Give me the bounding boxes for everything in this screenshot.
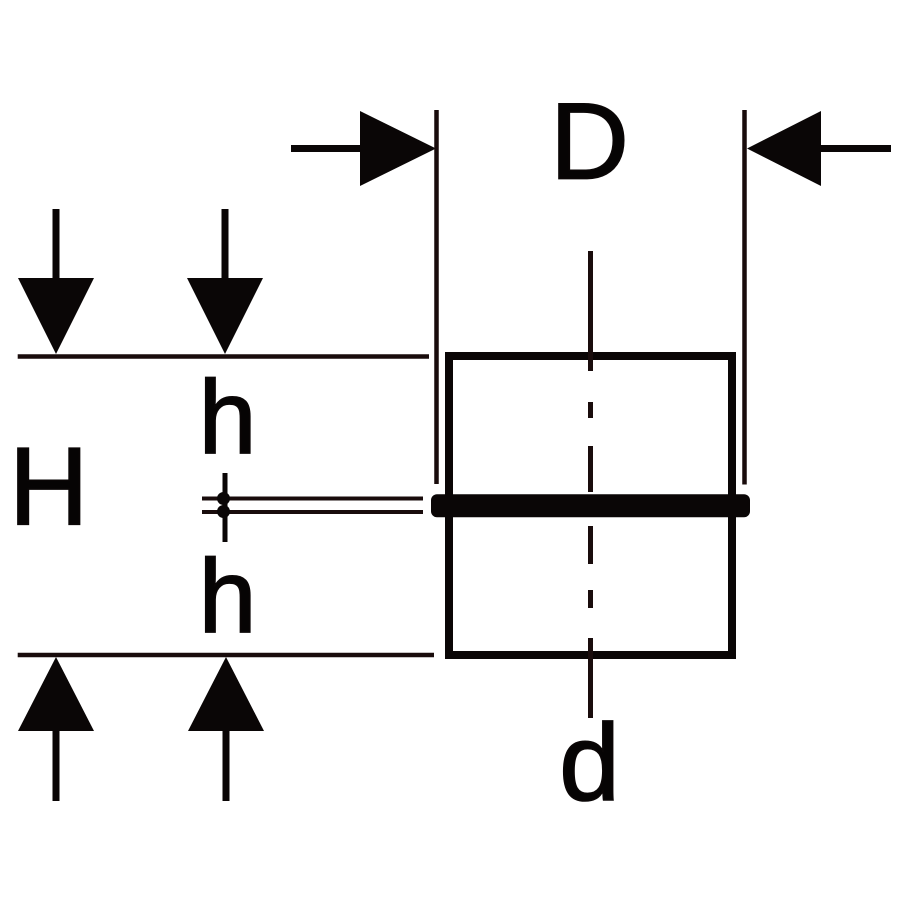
dimension H arrow down-left stem (53, 209, 60, 283)
dimension H arrowhead down-left (18, 278, 94, 354)
dimension h arrowhead down-mid (187, 278, 263, 354)
dimension H arrow up-left stem (53, 729, 60, 801)
svg-text:h: h (199, 360, 257, 476)
extension line left (D) (434, 110, 439, 484)
dimension D leader line right (819, 145, 891, 152)
joint mid tick (223, 473, 228, 542)
svg-text:h: h (199, 539, 257, 655)
centre line (dash-dot) (588, 251, 593, 718)
dimension h arrowhead up-mid (188, 657, 264, 731)
dimension h arrow down-mid stem (222, 209, 229, 283)
joint mid reference double line upper (202, 497, 423, 501)
dimension h arrow up-mid stem (223, 729, 230, 801)
bottom reference line (bottom of fitting) (18, 653, 434, 658)
socket collar band (431, 494, 750, 517)
dimension D arrowhead right (points left) (747, 111, 821, 186)
top reference line (top of fitting) (18, 354, 429, 359)
svg-text:H: H (9, 426, 88, 549)
joint mid dot upper (217, 492, 230, 505)
dimension H arrowhead up-left (18, 657, 94, 731)
svg-text:d: d (559, 702, 620, 824)
fitting body outline (449, 356, 732, 655)
dimension D leader line left (291, 145, 366, 152)
svg-text:D: D (550, 81, 629, 203)
joint mid reference double line lower (202, 510, 423, 514)
extension line right (D) (742, 110, 747, 485)
joint mid dot lower (217, 505, 230, 518)
dimension D arrowhead left (points right) (360, 111, 436, 186)
